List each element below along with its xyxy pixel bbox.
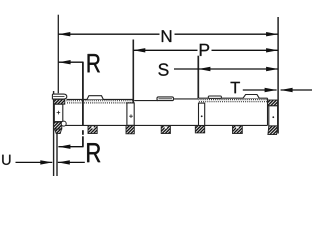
- foot 2: [161, 126, 170, 134]
- knurl rows section1: [67, 100, 134, 102]
- dimension line S: [174, 68, 278, 70]
- extension line R face: [82, 62, 84, 126]
- dimension line T right: [281, 89, 312, 91]
- label N: [162, 30, 171, 42]
- mounting rail left line: [53, 91, 55, 176]
- dimension line U right: [58, 161, 85, 163]
- right end block edge: [267, 98, 269, 125]
- dimension line R top: [59, 61, 84, 63]
- foot 3: [233, 126, 243, 134]
- partition P cross mark: [129, 114, 133, 118]
- dimension line U left: [16, 161, 53, 163]
- left end bracket body: [54, 104, 63, 121]
- right end block dot: [272, 116, 274, 118]
- foot 1: [88, 126, 97, 134]
- label T: [231, 82, 240, 93]
- section2 top line right part: [173, 98, 199, 100]
- right end block body: [269, 106, 278, 126]
- label P: [200, 44, 209, 56]
- partition S dot: [201, 115, 203, 117]
- extension line left (N): [57, 15, 59, 94]
- left end bracket foot hatch: [54, 122, 62, 129]
- extension line P: [132, 40, 134, 104]
- dimension line R bottom: [58, 146, 83, 148]
- partition S foot: [195, 126, 204, 133]
- dimension line P: [133, 49, 197, 51]
- bump B on section3: [243, 95, 259, 99]
- partition P foot: [126, 126, 134, 134]
- dimension line N: [58, 33, 159, 35]
- left end bracket roller: [61, 121, 66, 126]
- extension line S: [197, 56, 199, 99]
- left end bracket hatch block: [54, 99, 65, 104]
- section3 top line: [198, 97, 267, 99]
- extension line right: [277, 17, 279, 134]
- label U: [2, 155, 10, 165]
- knurl rows section3: [198, 99, 267, 101]
- bump 1 on section1: [87, 96, 103, 100]
- right end block top hatch: [268, 100, 278, 106]
- right end block foot hatch: [268, 126, 278, 135]
- label R top: [88, 54, 100, 72]
- section2 top line left part: [134, 100, 158, 102]
- bump A on section3: [208, 96, 221, 98]
- mounting rail right line: [56, 134, 58, 176]
- left end bracket cross mark: [57, 111, 61, 115]
- body bottom line: [63, 124, 268, 126]
- section1 top line: [67, 98, 134, 100]
- bump 2 on section2: [157, 97, 174, 101]
- partition column P: [127, 103, 134, 125]
- label R bottom: [87, 143, 100, 162]
- label S: [158, 63, 168, 75]
- dimension line T left: [243, 89, 277, 91]
- partition column S: [199, 103, 205, 125]
- left end bracket tab: [52, 94, 66, 99]
